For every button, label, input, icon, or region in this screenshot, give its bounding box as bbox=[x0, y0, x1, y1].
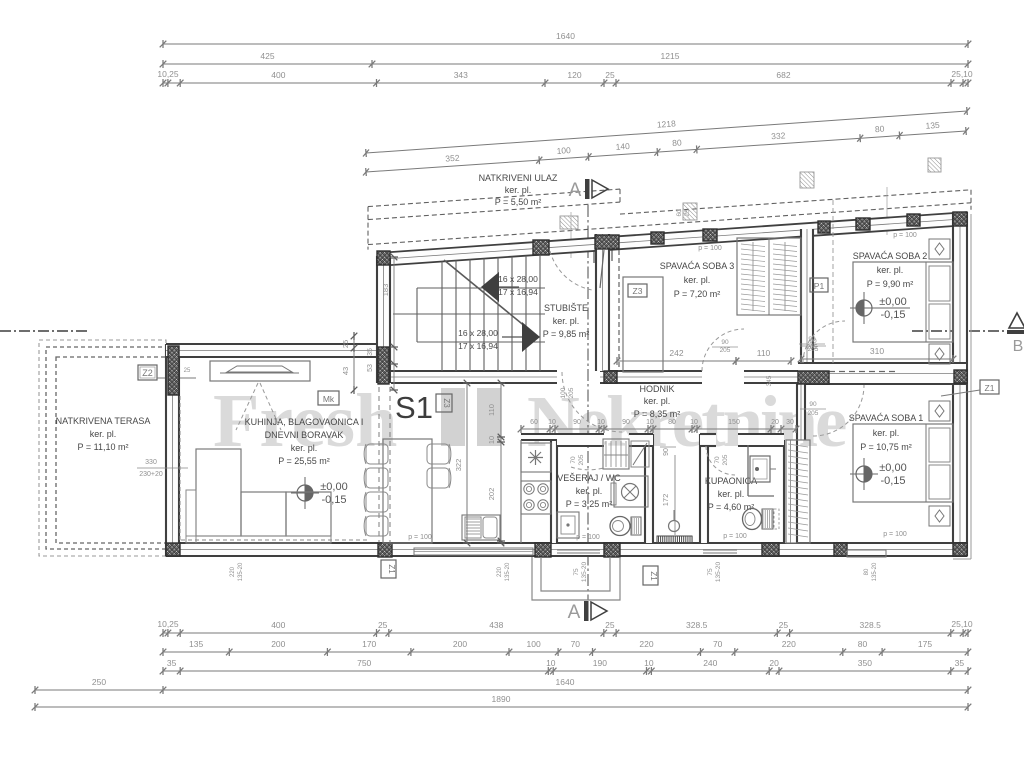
soba2 level mark bbox=[856, 300, 872, 316]
svg-text:ker. pl.: ker. pl. bbox=[90, 429, 117, 439]
svg-text:35: 35 bbox=[367, 348, 374, 356]
veseraj sliding door hatch bbox=[603, 439, 629, 469]
svg-text:90: 90 bbox=[663, 448, 670, 456]
svg-text:ker. pl.: ker. pl. bbox=[291, 443, 318, 453]
wall staircase-soba3 bbox=[596, 234, 609, 371]
TV viewing dashed lines bbox=[236, 383, 258, 430]
svg-text:1640: 1640 bbox=[556, 677, 575, 687]
pier top wall 8 bbox=[907, 214, 920, 226]
terrace inner dashed outline bbox=[56, 357, 166, 543]
svg-text:100: 100 bbox=[527, 639, 541, 649]
corridor right wall / kupaonica left bbox=[700, 434, 708, 543]
svg-text:343: 343 bbox=[454, 70, 468, 80]
svg-text:P = 3,25 m²: P = 3,25 m² bbox=[566, 499, 613, 509]
svg-text:70: 70 bbox=[570, 456, 577, 464]
slanted dimension 352 100 140 80 332 80 135 bbox=[366, 131, 966, 172]
svg-text:16 x 28,00: 16 x 28,00 bbox=[498, 274, 538, 284]
soba2 interior dim 310 bbox=[801, 358, 953, 360]
svg-text:135: 135 bbox=[925, 120, 940, 131]
entrance mat bbox=[657, 536, 692, 543]
svg-text:16 x 28,00: 16 x 28,00 bbox=[458, 328, 498, 338]
svg-text:10: 10 bbox=[548, 419, 556, 426]
soba1 wardrobe bbox=[786, 440, 810, 543]
svg-text:P = 9,90 m²: P = 9,90 m² bbox=[867, 279, 914, 289]
entrance door frame bbox=[593, 249, 595, 263]
svg-text:P = 10,75 m²: P = 10,75 m² bbox=[860, 442, 912, 452]
window tag Z2 bbox=[138, 365, 157, 380]
svg-text:-0,15: -0,15 bbox=[880, 309, 905, 321]
svg-text:1218: 1218 bbox=[657, 118, 677, 129]
svg-text:ker. pl.: ker. pl. bbox=[877, 265, 904, 275]
svg-text:135-20: 135-20 bbox=[505, 562, 511, 581]
pier top wall 5 bbox=[703, 229, 717, 241]
svg-text:SPAVAĆA SOBA 3: SPAVAĆA SOBA 3 bbox=[660, 261, 735, 271]
corridor height dim bbox=[674, 455, 676, 535]
soba3 door arc bbox=[702, 329, 744, 371]
veseraj sink bbox=[557, 512, 579, 538]
staircase break diagonal bbox=[444, 260, 532, 332]
kupaonica top wall segments bbox=[700, 434, 716, 446]
canopy dashed outline over entrance bbox=[368, 189, 620, 207]
svg-text:328.5: 328.5 bbox=[860, 620, 882, 630]
window tag Z3 rotated bbox=[436, 394, 452, 412]
soba1 nightstand bottom bbox=[929, 506, 950, 526]
dimension line 425 1215 bbox=[163, 63, 968, 65]
svg-text:17 x 16,94: 17 x 16,94 bbox=[458, 341, 498, 351]
svg-text:S1: S1 bbox=[395, 390, 433, 425]
left wall window lines bbox=[167, 373, 180, 375]
bottom window kupaonica bbox=[703, 549, 737, 551]
svg-text:P = 25,55 m²: P = 25,55 m² bbox=[278, 456, 330, 466]
svg-text:183: 183 bbox=[381, 284, 390, 297]
exterior bottom wall bbox=[166, 543, 967, 556]
dining table bbox=[383, 439, 432, 543]
svg-text:25: 25 bbox=[605, 70, 615, 80]
window tag Z1 bottom bbox=[643, 566, 658, 585]
entrance door arc into staircase bbox=[550, 251, 592, 290]
veseraj top wall bbox=[557, 434, 604, 446]
svg-text:Z1: Z1 bbox=[985, 383, 995, 393]
pier bottom-left corner bbox=[166, 543, 180, 556]
pier right wall mid bbox=[954, 370, 967, 383]
svg-text:205: 205 bbox=[722, 454, 729, 465]
svg-text:80: 80 bbox=[858, 639, 868, 649]
svg-text:90: 90 bbox=[622, 419, 630, 426]
bottom dim row 135 200 170 200 100 70 220 70 220 80 175 bbox=[163, 651, 968, 653]
svg-text:100: 100 bbox=[556, 145, 571, 156]
svg-text:10: 10 bbox=[644, 658, 654, 668]
soba2 nightstand bottom bbox=[929, 344, 950, 364]
pier bottom wall kitchen bbox=[535, 543, 551, 557]
svg-text:35: 35 bbox=[955, 658, 965, 668]
bottom wall inner dashed line bbox=[181, 539, 368, 541]
staircase left wall bbox=[377, 256, 390, 383]
window tag P1 bbox=[810, 278, 828, 292]
svg-text:P1: P1 bbox=[814, 281, 825, 291]
eaves line right bbox=[970, 214, 972, 559]
dining chairs bbox=[366, 444, 388, 464]
svg-text:100: 100 bbox=[560, 387, 567, 398]
svg-text:Z3: Z3 bbox=[633, 286, 643, 296]
svg-text:170: 170 bbox=[362, 639, 376, 649]
window tag Z3 soba3 bbox=[628, 284, 647, 297]
svg-text:750: 750 bbox=[357, 658, 371, 668]
svg-text:25,10: 25,10 bbox=[951, 69, 973, 79]
svg-text:400: 400 bbox=[271, 620, 285, 630]
svg-text:400: 400 bbox=[271, 70, 285, 80]
pier hodnik mid bbox=[604, 371, 617, 383]
soba1 wardrobe hangers bbox=[788, 444, 808, 447]
svg-text:±0,00: ±0,00 bbox=[879, 462, 906, 474]
svg-text:322: 322 bbox=[454, 459, 463, 472]
soba1 bed bbox=[853, 424, 953, 502]
svg-text:135-20: 135-20 bbox=[581, 562, 588, 583]
bottom dim row 1890 bbox=[35, 706, 968, 708]
svg-text:345: 345 bbox=[766, 375, 773, 386]
svg-text:ker. pl.: ker. pl. bbox=[505, 185, 532, 195]
veseraj left wall (kitchen back) bbox=[551, 434, 557, 543]
pier stair top-left bbox=[377, 251, 390, 265]
svg-text:140: 140 bbox=[615, 141, 630, 152]
bottom dim row 250 1640 bbox=[35, 689, 968, 691]
svg-text:80: 80 bbox=[864, 568, 870, 575]
svg-text:10,25: 10,25 bbox=[157, 69, 179, 79]
svg-text:STUBIŠTE: STUBIŠTE bbox=[544, 303, 588, 313]
slanted dimension 1218 bbox=[366, 111, 967, 153]
wall soba3-soba2 bbox=[801, 229, 813, 363]
kitchen lower cabinet bbox=[462, 515, 500, 540]
svg-text:ker. pl.: ker. pl. bbox=[553, 316, 580, 326]
hodnik top wall right bbox=[744, 371, 800, 383]
veseraj right wall bbox=[645, 434, 653, 543]
svg-text:NATKRIVENI ULAZ: NATKRIVENI ULAZ bbox=[479, 173, 558, 183]
terrace outer dashed outline bbox=[39, 340, 166, 556]
bottom window soba1 bbox=[847, 550, 886, 557]
svg-text:75: 75 bbox=[707, 568, 714, 576]
section marker B right bbox=[1009, 313, 1024, 328]
washing machine bbox=[614, 476, 648, 507]
left wall inner dashed line bbox=[179, 396, 181, 540]
section line B-B horizontal dash-dot bbox=[0, 330, 90, 332]
svg-text:90: 90 bbox=[721, 339, 729, 346]
soba1 nightstand top bbox=[929, 401, 950, 421]
svg-text:10: 10 bbox=[690, 419, 698, 426]
soba3 wardrobe with hangers bbox=[737, 238, 801, 315]
kitchen top wall bbox=[521, 434, 557, 440]
svg-text:P = 7,20 m²: P = 7,20 m² bbox=[674, 289, 721, 299]
staircase arrow down bbox=[522, 322, 540, 352]
dimension line 10 25 400 343 120 25 682 25 10 bbox=[163, 82, 968, 84]
exterior top wall slanted bbox=[377, 212, 967, 266]
pier left wall top tall bbox=[168, 346, 179, 395]
living top vertical dim bbox=[353, 336, 355, 390]
canopy post 4 bbox=[928, 158, 941, 172]
svg-text:P = 8,35 m²: P = 8,35 m² bbox=[634, 409, 681, 419]
veseraj toilet bbox=[610, 517, 630, 536]
svg-text:p = 100: p = 100 bbox=[408, 534, 432, 541]
dimension line total 1640 top bbox=[163, 43, 968, 45]
svg-text:DNEVNI BORAVAK: DNEVNI BORAVAK bbox=[265, 430, 344, 440]
svg-text:135-20: 135-20 bbox=[715, 562, 722, 583]
svg-text:352: 352 bbox=[445, 153, 460, 164]
stair wall exterior dims bbox=[393, 257, 395, 390]
kitchen counter bbox=[520, 440, 522, 543]
pier bottom wall corridor-left bbox=[604, 543, 620, 557]
wall kupaonica-soba1 bbox=[784, 440, 797, 543]
svg-text:150: 150 bbox=[728, 419, 740, 426]
window tag Z1 under terrace door bbox=[381, 560, 396, 578]
svg-text:P = 5,50 m²: P = 5,50 m² bbox=[495, 197, 542, 207]
soba1 level mark bbox=[856, 466, 872, 482]
pier stair wall bottom tall bbox=[378, 347, 389, 384]
pier top wall 7 bbox=[856, 218, 870, 230]
staircase treads bbox=[441, 262, 443, 372]
P1 sliding door dashed track bbox=[832, 200, 834, 363]
veseraj door leaf bbox=[631, 441, 649, 467]
hodnik interior dimension chain bbox=[521, 428, 796, 430]
svg-text:1640: 1640 bbox=[556, 31, 575, 41]
soba3 wall opening dashed line bbox=[618, 250, 620, 371]
svg-text:75: 75 bbox=[573, 568, 580, 576]
entrance steps inner bbox=[541, 557, 610, 591]
svg-text:Z1: Z1 bbox=[387, 564, 396, 574]
wall hodnik-soba1 door jamb bbox=[797, 384, 805, 440]
svg-text:Z2: Z2 bbox=[142, 368, 153, 378]
hodnik top wall mid bbox=[600, 371, 702, 383]
svg-text:30: 30 bbox=[786, 419, 794, 426]
soba3 interior dim 110 bbox=[736, 360, 791, 362]
wall staircase-living dashed opening bbox=[378, 387, 380, 543]
svg-text:10: 10 bbox=[487, 436, 496, 444]
soba2 nightstand top bbox=[929, 239, 950, 259]
svg-text:220: 220 bbox=[230, 566, 236, 577]
svg-text:90: 90 bbox=[573, 419, 581, 426]
living room top wall bbox=[166, 344, 391, 357]
svg-text:240: 240 bbox=[703, 658, 717, 668]
svg-text:ker. pl.: ker. pl. bbox=[684, 275, 711, 285]
vertical dim 322 bbox=[466, 383, 468, 543]
pier top wall 6 bbox=[818, 221, 830, 233]
svg-text:±0,00: ±0,00 bbox=[879, 296, 906, 308]
svg-text:190: 190 bbox=[593, 658, 607, 668]
svg-text:135: 135 bbox=[189, 639, 203, 649]
canopy post 2 bbox=[683, 203, 697, 220]
svg-text:332: 332 bbox=[771, 130, 786, 141]
svg-text:205: 205 bbox=[807, 344, 818, 351]
svg-text:1890: 1890 bbox=[492, 694, 511, 704]
svg-text:425: 425 bbox=[260, 51, 274, 61]
svg-text:Z3: Z3 bbox=[442, 398, 451, 408]
canopy post 3 bbox=[800, 172, 814, 188]
vertical dim 110 10 202 bbox=[500, 383, 502, 543]
exterior left wall living room bbox=[166, 344, 179, 556]
entrance door knob bbox=[669, 521, 680, 532]
svg-text:202: 202 bbox=[487, 488, 496, 501]
svg-text:220: 220 bbox=[782, 639, 796, 649]
kupaonica sink bbox=[747, 445, 749, 496]
svg-text:80: 80 bbox=[672, 137, 682, 148]
bottom window veseraj bbox=[557, 549, 600, 551]
section line A-A vertical dash-dot bbox=[587, 205, 589, 600]
svg-text:60: 60 bbox=[676, 209, 684, 217]
soba3 hanger ticks bbox=[752, 242, 754, 311]
veseraj top wall right segment bbox=[629, 434, 653, 446]
svg-text:p = 100: p = 100 bbox=[576, 534, 600, 541]
svg-text:ker. pl.: ker. pl. bbox=[873, 428, 900, 438]
svg-text:205: 205 bbox=[808, 410, 819, 417]
svg-text:25: 25 bbox=[605, 620, 615, 630]
svg-text:Mk: Mk bbox=[323, 394, 335, 404]
svg-text:25: 25 bbox=[378, 620, 388, 630]
sofa bbox=[196, 449, 241, 536]
window tag Z1 right bbox=[980, 380, 999, 394]
svg-text:B: B bbox=[1013, 338, 1024, 355]
pier bottom-right corner bbox=[953, 543, 967, 556]
svg-text:ker. pl.: ker. pl. bbox=[718, 489, 745, 499]
svg-text:P = 11,10 m²: P = 11,10 m² bbox=[78, 442, 129, 452]
svg-text:350: 350 bbox=[858, 658, 872, 668]
svg-text:135-20: 135-20 bbox=[238, 562, 244, 581]
exterior right wall bbox=[953, 212, 967, 556]
staircase arrow up bbox=[481, 272, 499, 302]
pier top wall 3 soba3 left bbox=[595, 235, 619, 249]
svg-text:120: 120 bbox=[567, 70, 581, 80]
soba1 door arc bbox=[813, 385, 864, 436]
svg-text:53: 53 bbox=[367, 364, 374, 372]
svg-text:NATKRIVENA TERASA: NATKRIVENA TERASA bbox=[56, 416, 151, 426]
terrace sliding door bbox=[414, 548, 533, 555]
svg-text:682: 682 bbox=[776, 70, 790, 80]
svg-text:438: 438 bbox=[489, 620, 503, 630]
svg-text:43: 43 bbox=[341, 367, 350, 375]
svg-text:110: 110 bbox=[757, 348, 771, 358]
svg-text:220: 220 bbox=[639, 639, 653, 649]
svg-text:25: 25 bbox=[184, 368, 191, 374]
svg-text:-0,15: -0,15 bbox=[880, 475, 905, 487]
svg-text:10: 10 bbox=[546, 658, 556, 668]
svg-text:ker. pl.: ker. pl. bbox=[576, 486, 603, 496]
svg-text:10,25: 10,25 bbox=[157, 619, 179, 629]
svg-text:35: 35 bbox=[167, 658, 177, 668]
svg-text:330: 330 bbox=[145, 459, 157, 466]
svg-text:310: 310 bbox=[870, 346, 884, 356]
soba3 closet rectangle bbox=[623, 277, 663, 372]
svg-text:VEŠERAJ / WC: VEŠERAJ / WC bbox=[557, 473, 621, 483]
svg-text:242: 242 bbox=[669, 348, 683, 358]
pier soba2-soba1 left big bbox=[798, 371, 829, 384]
kupaonica door arc bbox=[706, 446, 735, 475]
svg-text:80: 80 bbox=[668, 419, 676, 426]
staircase bottom wall / hodnik top wall left bbox=[391, 371, 557, 383]
svg-text:HODNIK: HODNIK bbox=[639, 384, 674, 394]
svg-text:230+20: 230+20 bbox=[139, 471, 163, 478]
terrace dim note bbox=[137, 467, 188, 469]
bottom dim row 35 750 10 190 10 240 20 350 35 bbox=[163, 670, 968, 672]
soba2 bed bbox=[853, 262, 953, 342]
fireplace TV unit bbox=[210, 361, 310, 381]
eaves dashed outline bbox=[620, 190, 971, 214]
tag Mk bbox=[318, 391, 339, 405]
svg-text:10: 10 bbox=[597, 419, 605, 426]
svg-text:205: 205 bbox=[578, 454, 585, 465]
svg-text:80: 80 bbox=[875, 124, 885, 135]
pier bottom wall living bbox=[378, 543, 392, 557]
svg-text:ker. pl.: ker. pl. bbox=[644, 396, 671, 406]
svg-text:p = 100: p = 100 bbox=[698, 245, 722, 252]
svg-text:60: 60 bbox=[530, 419, 538, 426]
svg-text:175: 175 bbox=[918, 639, 932, 649]
kitchen stove bbox=[521, 481, 551, 514]
pier top wall 4 bbox=[651, 232, 664, 244]
svg-text:17 x 16,94: 17 x 16,94 bbox=[498, 287, 538, 297]
svg-text:p = 100: p = 100 bbox=[893, 232, 917, 239]
svg-text:200: 200 bbox=[453, 639, 467, 649]
svg-text:70: 70 bbox=[571, 639, 581, 649]
svg-text:25: 25 bbox=[684, 209, 692, 217]
svg-text:172: 172 bbox=[661, 494, 670, 507]
svg-text:p = 100: p = 100 bbox=[883, 531, 907, 538]
svg-text:10: 10 bbox=[646, 419, 654, 426]
wall soba2-soba1 thick bbox=[798, 363, 966, 384]
pier bottom wall soba1-left bbox=[834, 543, 847, 556]
svg-text:205: 205 bbox=[720, 347, 731, 354]
svg-text:Z1: Z1 bbox=[649, 571, 658, 581]
svg-text:25: 25 bbox=[341, 340, 350, 348]
pier top wall 2 bbox=[533, 240, 549, 255]
pier bottom wall kupaonica bbox=[762, 543, 779, 556]
kitchen sink unit bbox=[521, 443, 551, 472]
svg-text:70: 70 bbox=[714, 456, 721, 464]
svg-text:KUHINJA, BLAGOVAONICA I: KUHINJA, BLAGOVAONICA I bbox=[245, 417, 364, 427]
entrance steps outer bbox=[532, 557, 620, 600]
svg-text:KUPAONICA: KUPAONICA bbox=[705, 476, 757, 486]
staircase landing lines bbox=[417, 287, 545, 289]
hodnik door arc from staircase bbox=[562, 372, 622, 432]
wall soba2-soba1 dashed line bbox=[829, 371, 897, 373]
soba2 door arc bbox=[803, 321, 845, 363]
svg-text:90: 90 bbox=[809, 401, 817, 408]
svg-text:A: A bbox=[568, 602, 581, 623]
svg-text:250: 250 bbox=[92, 677, 106, 687]
svg-text:-0,15: -0,15 bbox=[321, 494, 346, 506]
bottom dim row 10 25 400 25 438 25 328.5 25 328.5 25 10 bbox=[163, 632, 968, 634]
svg-text:90: 90 bbox=[808, 336, 816, 343]
svg-text:1215: 1215 bbox=[661, 51, 680, 61]
svg-text:SPAVAĆA SOBA 2: SPAVAĆA SOBA 2 bbox=[853, 251, 928, 261]
svg-text:P = 9,85 m²: P = 9,85 m² bbox=[543, 329, 590, 339]
svg-text:20: 20 bbox=[769, 658, 779, 668]
svg-text:SPAVAĆA SOBA 1: SPAVAĆA SOBA 1 bbox=[849, 413, 924, 423]
svg-text:110: 110 bbox=[487, 404, 496, 416]
svg-text:205: 205 bbox=[568, 387, 575, 398]
svg-text:p = 100: p = 100 bbox=[723, 533, 747, 540]
svg-text:70: 70 bbox=[713, 639, 723, 649]
kupaonica toilet bbox=[743, 509, 762, 530]
svg-text:20: 20 bbox=[771, 419, 779, 426]
svg-text:220: 220 bbox=[497, 566, 503, 577]
svg-text:A: A bbox=[569, 180, 582, 201]
canopy post 1 bbox=[560, 216, 578, 229]
svg-text:135-20: 135-20 bbox=[872, 562, 878, 581]
living level mark bbox=[297, 485, 313, 501]
soba3 interior dim 242 bbox=[617, 360, 736, 362]
terrace middle dashed outline bbox=[46, 347, 166, 549]
svg-text:25: 25 bbox=[779, 620, 789, 630]
svg-text:25,10: 25,10 bbox=[951, 619, 973, 629]
svg-text:328.5: 328.5 bbox=[686, 620, 708, 630]
pier top-right corner bbox=[953, 212, 967, 226]
svg-text:200: 200 bbox=[271, 639, 285, 649]
